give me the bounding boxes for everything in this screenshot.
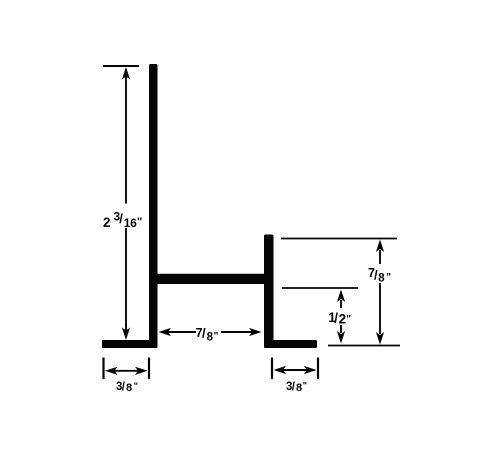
left tick of bottom-left 3/8 dimension <box>102 358 104 380</box>
arrowhead down right 7/8 <box>376 332 384 345</box>
svg-text:8: 8 <box>126 382 132 394</box>
svg-text:16: 16 <box>124 216 137 230</box>
dimension line 1/2 upper segment <box>340 300 342 308</box>
svg-text:": " <box>134 381 138 391</box>
dimension line right 7/8 lower segment <box>379 283 381 334</box>
svg-text:2: 2 <box>339 312 347 327</box>
right tick of bottom-right 3/8 dimension <box>317 358 319 380</box>
arrowhead up at top tick <box>122 67 130 80</box>
svg-text:": " <box>346 314 351 325</box>
arrowhead up right 7/8 <box>376 240 384 253</box>
extension line below right flange <box>328 345 400 347</box>
dimension line 2 3/16 lower segment <box>125 228 127 331</box>
label 1/2" <box>328 310 351 327</box>
dimension line middle 7/8 right segment <box>221 331 259 333</box>
right vertical bar of profile <box>264 235 274 349</box>
extension line below crossbar for 1/2 <box>282 287 358 289</box>
double arrow line bottom-right 3/8 <box>282 369 308 371</box>
arrowhead left bottom-left 3/8 <box>105 367 118 375</box>
svg-text:8: 8 <box>207 331 214 343</box>
crossbar of profile <box>149 274 272 284</box>
arrowhead down at left flange <box>122 328 130 341</box>
svg-text:/: / <box>202 326 206 341</box>
svg-text:/: / <box>334 311 338 326</box>
label middle 7/8" <box>196 326 219 344</box>
label bottom-right 3/8" <box>286 381 307 395</box>
dimension line middle 7/8 left segment <box>161 331 196 333</box>
arrowhead right bottom-right 3/8 <box>304 366 317 374</box>
right bottom flange of profile <box>264 340 317 348</box>
svg-text:8: 8 <box>296 382 302 394</box>
dimension line 2 3/16 upper segment <box>125 76 127 204</box>
arrowhead down 1/2 <box>337 331 345 344</box>
svg-text:8: 8 <box>378 273 385 285</box>
label right 7/8" <box>368 266 391 285</box>
extension line from top of right bar <box>281 238 397 240</box>
label 2 3/16" <box>103 210 142 231</box>
svg-text:": " <box>386 272 391 283</box>
right tick of bottom-left 3/8 dimension <box>148 358 150 380</box>
arrowhead up 1/2 <box>337 290 345 303</box>
arrowhead left bottom-right 3/8 <box>274 366 287 374</box>
left bottom flange of profile <box>102 340 158 348</box>
left tick of bottom-right 3/8 dimension <box>271 358 273 380</box>
dimension line right 7/8 upper segment <box>379 250 381 264</box>
arrowhead left at left bar <box>159 328 172 336</box>
svg-text:/: / <box>119 211 123 226</box>
arrowhead right bottom-left 3/8 <box>135 367 148 375</box>
double arrow line bottom-left 3/8 <box>114 370 138 372</box>
svg-text:": " <box>214 331 219 342</box>
svg-text:": " <box>303 381 307 391</box>
svg-text:2: 2 <box>103 215 111 230</box>
svg-text:": " <box>137 216 142 228</box>
left vertical bar of profile <box>149 64 158 348</box>
label bottom-left 3/8" <box>116 381 138 394</box>
arrowhead right at right bar <box>249 328 262 336</box>
dimension line 1/2 lower segment <box>340 325 342 333</box>
extension tick for 2 3/16 dimension <box>103 65 139 67</box>
